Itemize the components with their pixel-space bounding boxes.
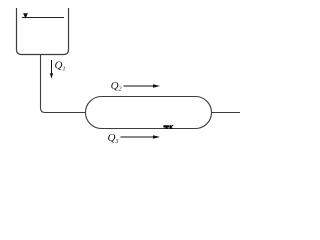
wire: outlet line right xyxy=(212,112,241,114)
flow arrow Q2 xyxy=(124,84,161,88)
svg-text:Q3: Q3 xyxy=(108,132,119,145)
pipe loop (stadium shape) xyxy=(86,97,212,129)
svg-text:Q1: Q1 xyxy=(55,60,66,73)
water level line xyxy=(22,17,64,19)
water level marker (filled triangle) xyxy=(23,13,28,18)
valve K marker (filled triangle on lower branch) xyxy=(163,125,169,129)
svg-text:Q2: Q2 xyxy=(111,80,122,93)
label K xyxy=(170,125,173,129)
wire: outlet pipe from tank xyxy=(41,55,86,113)
flow arrow Q3 xyxy=(121,135,161,139)
tank T1 xyxy=(17,8,69,55)
flow arrow Q1 xyxy=(50,60,53,79)
